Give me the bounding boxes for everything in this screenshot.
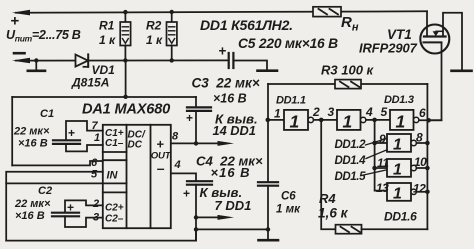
svg-text:14 DD1: 14 DD1 xyxy=(213,123,256,138)
resistor R4 xyxy=(321,120,427,234)
wire lower box top edge xyxy=(6,182,126,184)
wire R3 right leg to output bus xyxy=(426,84,428,120)
wire output bus xyxy=(426,120,428,229)
ground common bar top-right xyxy=(452,70,472,73)
svg-text:1 к: 1 к xyxy=(146,33,163,47)
gate DD1.6 xyxy=(387,183,427,201)
svg-text:7 DD1: 7 DD1 xyxy=(215,198,252,213)
svg-text:6: 6 xyxy=(419,106,426,120)
svg-text:22 мк×: 22 мк× xyxy=(13,126,50,138)
svg-text:DC: DC xyxy=(128,140,143,151)
node minus input arrow xyxy=(12,58,30,63)
svg-text:DD1.3: DD1.3 xyxy=(384,94,414,106)
capacitor C6 xyxy=(258,120,278,240)
svg-text:1 к: 1 к xyxy=(99,33,116,47)
wire common link C4-C6 xyxy=(196,228,268,230)
wire source to common: rail stub right xyxy=(443,13,462,70)
svg-text:DD1.6: DD1.6 xyxy=(384,210,417,224)
svg-text:1,6 к: 1,6 к xyxy=(318,206,349,221)
svg-text:R3 100 к: R3 100 к xyxy=(321,63,375,78)
diode VD1 xyxy=(76,54,89,66)
svg-text:×16 В: ×16 В xyxy=(15,210,45,222)
gate DD1.2 xyxy=(337,110,390,130)
capacitor C3 xyxy=(187,97,211,143)
svg-text:3: 3 xyxy=(328,105,335,119)
label pointer DD1.4 xyxy=(366,150,387,159)
resistor R1 xyxy=(120,10,130,63)
svg-text:+: + xyxy=(68,126,75,140)
svg-text:DD1.4: DD1.4 xyxy=(335,155,367,167)
svg-text:+: + xyxy=(219,44,227,59)
svg-text:3: 3 xyxy=(93,212,99,224)
capacitor C2 xyxy=(52,200,103,227)
svg-text:1: 1 xyxy=(94,132,100,144)
svg-text:Д815А: Д815А xyxy=(71,76,109,90)
IC DA1 MAX680 block xyxy=(103,125,171,228)
ground common at minus-rail junction xyxy=(35,61,37,71)
svg-text:C3 22 мк×: C3 22 мк× xyxy=(192,76,260,91)
svg-text:R1: R1 xyxy=(99,19,115,33)
wire drain drop from rail xyxy=(426,11,428,36)
svg-text:C2: C2 xyxy=(38,185,52,197)
capacitor C5 xyxy=(229,53,277,71)
svg-text:IRFP2907: IRFP2907 xyxy=(359,41,418,56)
svg-text:R2: R2 xyxy=(146,19,162,33)
capacitor C1 xyxy=(53,121,103,151)
wire DA1 V+ horizontal y97 xyxy=(12,96,196,98)
svg-text:1: 1 xyxy=(274,107,281,121)
wire tap pin9 xyxy=(375,142,387,144)
svg-text:6: 6 xyxy=(91,157,98,169)
svg-text:5: 5 xyxy=(91,169,98,181)
svg-text:DD1.5: DD1.5 xyxy=(335,171,367,183)
svg-text:C2+: C2+ xyxy=(105,203,124,214)
svg-text:DD1.1: DD1.1 xyxy=(276,95,306,107)
wire supply tap R1 node down to DA1 net xyxy=(125,61,127,98)
svg-text:×16 В: ×16 В xyxy=(213,92,247,106)
svg-text:+: + xyxy=(186,111,193,125)
svg-text:R4: R4 xyxy=(319,191,336,206)
transistor VT1 IRFP2907 xyxy=(420,25,449,54)
svg-text:1: 1 xyxy=(393,186,402,203)
resistor R3 xyxy=(268,80,427,89)
svg-text:1: 1 xyxy=(343,112,353,132)
wire left vertical upper loop xyxy=(11,97,13,165)
wire pin5 feed xyxy=(6,172,103,241)
wire pin6 feed xyxy=(12,161,103,165)
svg-text:C1: C1 xyxy=(40,108,54,120)
wire R3 left leg / node A vertical xyxy=(267,84,269,120)
svg-text:1: 1 xyxy=(290,112,300,132)
svg-text:9: 9 xyxy=(379,132,386,146)
wire input bus node C down xyxy=(375,120,387,191)
svg-text:12: 12 xyxy=(413,182,426,196)
svg-text:1 мк: 1 мк xyxy=(276,204,301,216)
svg-text:C2–: C2– xyxy=(105,214,124,225)
svg-text:C6: C6 xyxy=(281,191,296,203)
svg-text:+: + xyxy=(11,13,20,30)
wire tap pin11 xyxy=(375,167,387,169)
label pointer DD1.5 xyxy=(364,170,387,175)
svg-text:4: 4 xyxy=(365,105,373,119)
svg-text:IN: IN xyxy=(107,170,119,182)
svg-text:13: 13 xyxy=(376,181,389,195)
svg-text:4: 4 xyxy=(174,159,181,171)
svg-text:2: 2 xyxy=(312,105,320,119)
gate DD1.3 xyxy=(390,110,442,130)
svg-text:DD1.2: DD1.2 xyxy=(335,139,367,151)
label pointer DD1.2 xyxy=(366,139,388,146)
svg-text:1: 1 xyxy=(396,112,406,132)
svg-text:5: 5 xyxy=(381,105,388,119)
gate DD1.4 xyxy=(387,134,427,152)
wire bottom common run xyxy=(6,229,196,240)
svg-text:DD1 К561ЛН2.: DD1 К561ЛН2. xyxy=(200,17,293,33)
wire pin7-of-DD1 arrow xyxy=(194,215,234,220)
capacitor C4 xyxy=(171,173,212,240)
svg-text:+: + xyxy=(67,201,74,215)
svg-text:–: – xyxy=(157,160,165,176)
node plus input arrow xyxy=(12,10,30,16)
svg-text:22 мк×: 22 мк× xyxy=(14,198,51,210)
wire minus rail xyxy=(16,59,229,61)
svg-text:7: 7 xyxy=(92,120,99,132)
svg-text:C5 220 мк×16 В: C5 220 мк×16 В xyxy=(238,36,338,51)
resistor R2 xyxy=(167,10,177,63)
minus sign label xyxy=(14,52,25,55)
wire pin8 out with arrow to DD1 pin14 xyxy=(171,141,234,146)
svg-text:×16 В: ×16 В xyxy=(18,138,48,150)
svg-text:1: 1 xyxy=(393,162,402,179)
wire top plus rail xyxy=(16,11,427,12)
svg-text:8: 8 xyxy=(416,131,423,145)
svg-text:10: 10 xyxy=(414,155,427,169)
gate DD1.5 xyxy=(387,159,427,177)
svg-text:8: 8 xyxy=(172,131,179,143)
svg-text:11: 11 xyxy=(377,156,389,170)
svg-text:×16 В: ×16 В xyxy=(211,165,251,180)
svg-text:2: 2 xyxy=(92,198,99,210)
gate DD1.1 xyxy=(266,110,338,130)
wire VT1 gate lead down xyxy=(429,43,442,121)
svg-text:DA1 MAX680: DA1 MAX680 xyxy=(82,102,170,118)
svg-text:C1–: C1– xyxy=(105,138,124,149)
svg-text:+: + xyxy=(157,137,165,152)
svg-text:+: + xyxy=(183,187,190,201)
resistor Rн load xyxy=(313,7,341,17)
svg-text:1: 1 xyxy=(393,137,402,154)
